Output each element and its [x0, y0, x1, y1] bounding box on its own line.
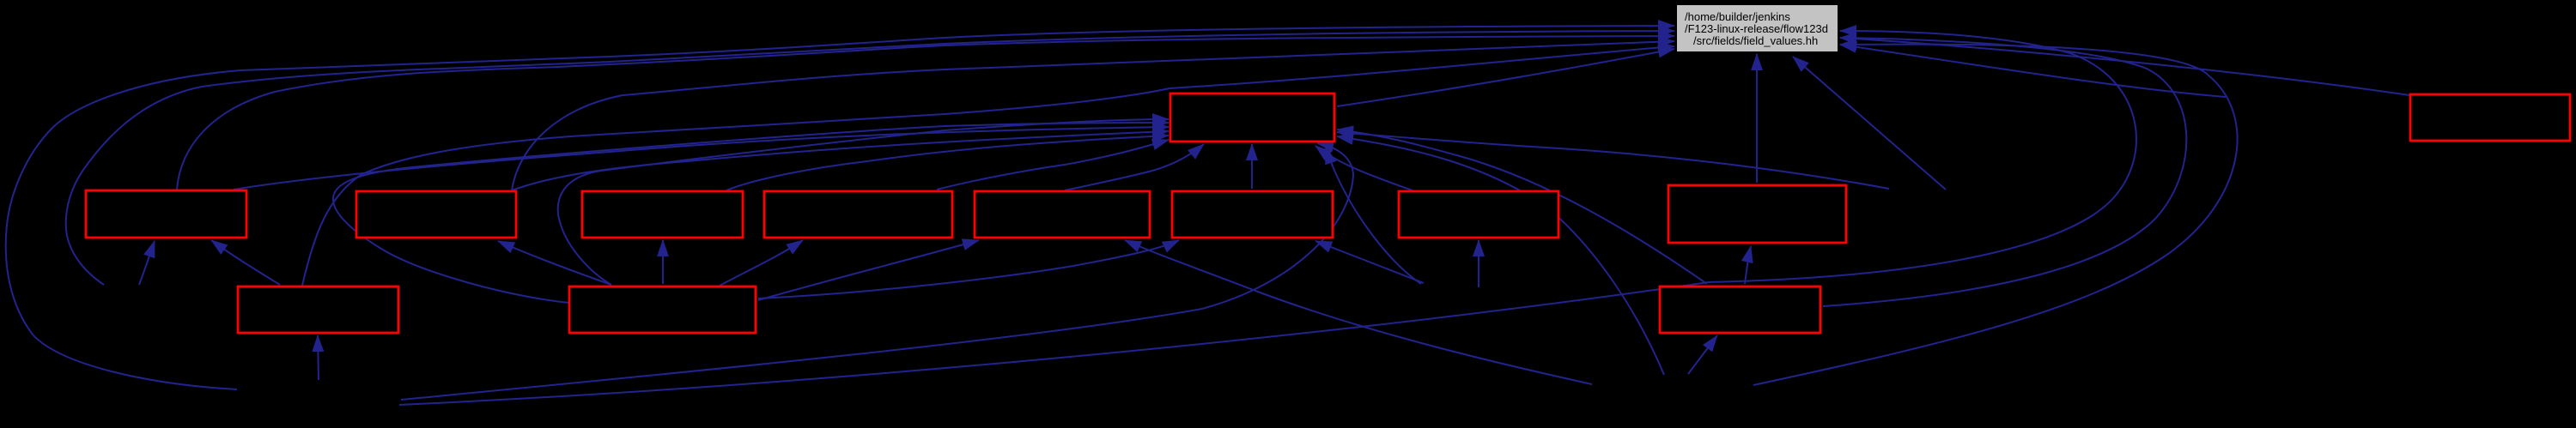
svg-text:/F123-linux-release/flow123d: /F123-linux-release/flow123d [1685, 22, 1828, 35]
svg-text:/src/fields/field_values.hh: /src/fields/field_values.hh [1693, 34, 1818, 47]
svg-text:/home/builder/jenkins: /home/builder/jenkins [1685, 10, 1790, 23]
